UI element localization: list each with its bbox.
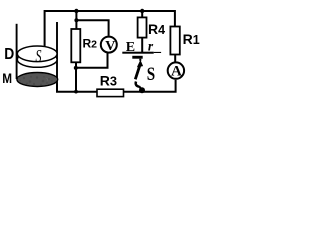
wire left electrode into vessel [16, 24, 18, 79]
switch S bottom contact hook [136, 82, 139, 87]
node junction top wire / R2 [74, 9, 78, 13]
disc D lower ellipse (3d band) [17, 52, 57, 68]
svg-text:R4: R4 [148, 21, 165, 37]
wire right electrode down to bottom wire [56, 22, 58, 92]
node junction top wire / R4 [140, 9, 144, 13]
ammeter A [168, 62, 184, 78]
liquid M gray ellipse [17, 73, 58, 87]
battery long plate with underlines of E and r [122, 52, 153, 54]
resistor R1 box [170, 27, 179, 55]
wire V top tap [76, 20, 108, 36]
wire R2 bottom [75, 62, 77, 92]
wire battery stub [141, 38, 143, 52]
resistor R3 box [97, 89, 124, 96]
svg-text:V: V [105, 39, 115, 54]
svg-text:R1: R1 [183, 31, 200, 47]
resistor R4 box [138, 17, 147, 37]
svg-text:R3: R3 [100, 72, 117, 88]
wire R2 branch top [75, 11, 77, 29]
battery short plate [132, 56, 142, 59]
svg-text:S: S [36, 46, 42, 66]
wire R4 branch stub [141, 11, 143, 18]
switch S blade [135, 65, 140, 80]
svg-text:S: S [147, 65, 155, 85]
svg-text:D: D [4, 46, 14, 63]
node junction V bottom tap [74, 66, 78, 70]
svg-text:r: r [148, 38, 154, 53]
svg-text:A: A [171, 64, 182, 80]
wire R1 to A [174, 55, 176, 62]
wire hook to bottom junction [139, 86, 142, 90]
wire V bottom tap [76, 53, 108, 67]
switch S arrowhead [137, 60, 143, 68]
bottom wire [57, 80, 176, 92]
wire below battery [139, 59, 141, 61]
node junction R2 / bottom wire [74, 90, 78, 94]
node junction battery branch / bottom wire [139, 87, 145, 93]
svg-text:M: M [2, 70, 12, 86]
svg-text:R2: R2 [83, 36, 98, 50]
wire top frame: left corner down, top run, right corner down to R1 [45, 11, 175, 50]
node junction V tap [74, 18, 78, 22]
voltmeter V [101, 37, 117, 53]
resistor R2 box [71, 29, 80, 62]
disc D top ellipse [17, 46, 57, 62]
